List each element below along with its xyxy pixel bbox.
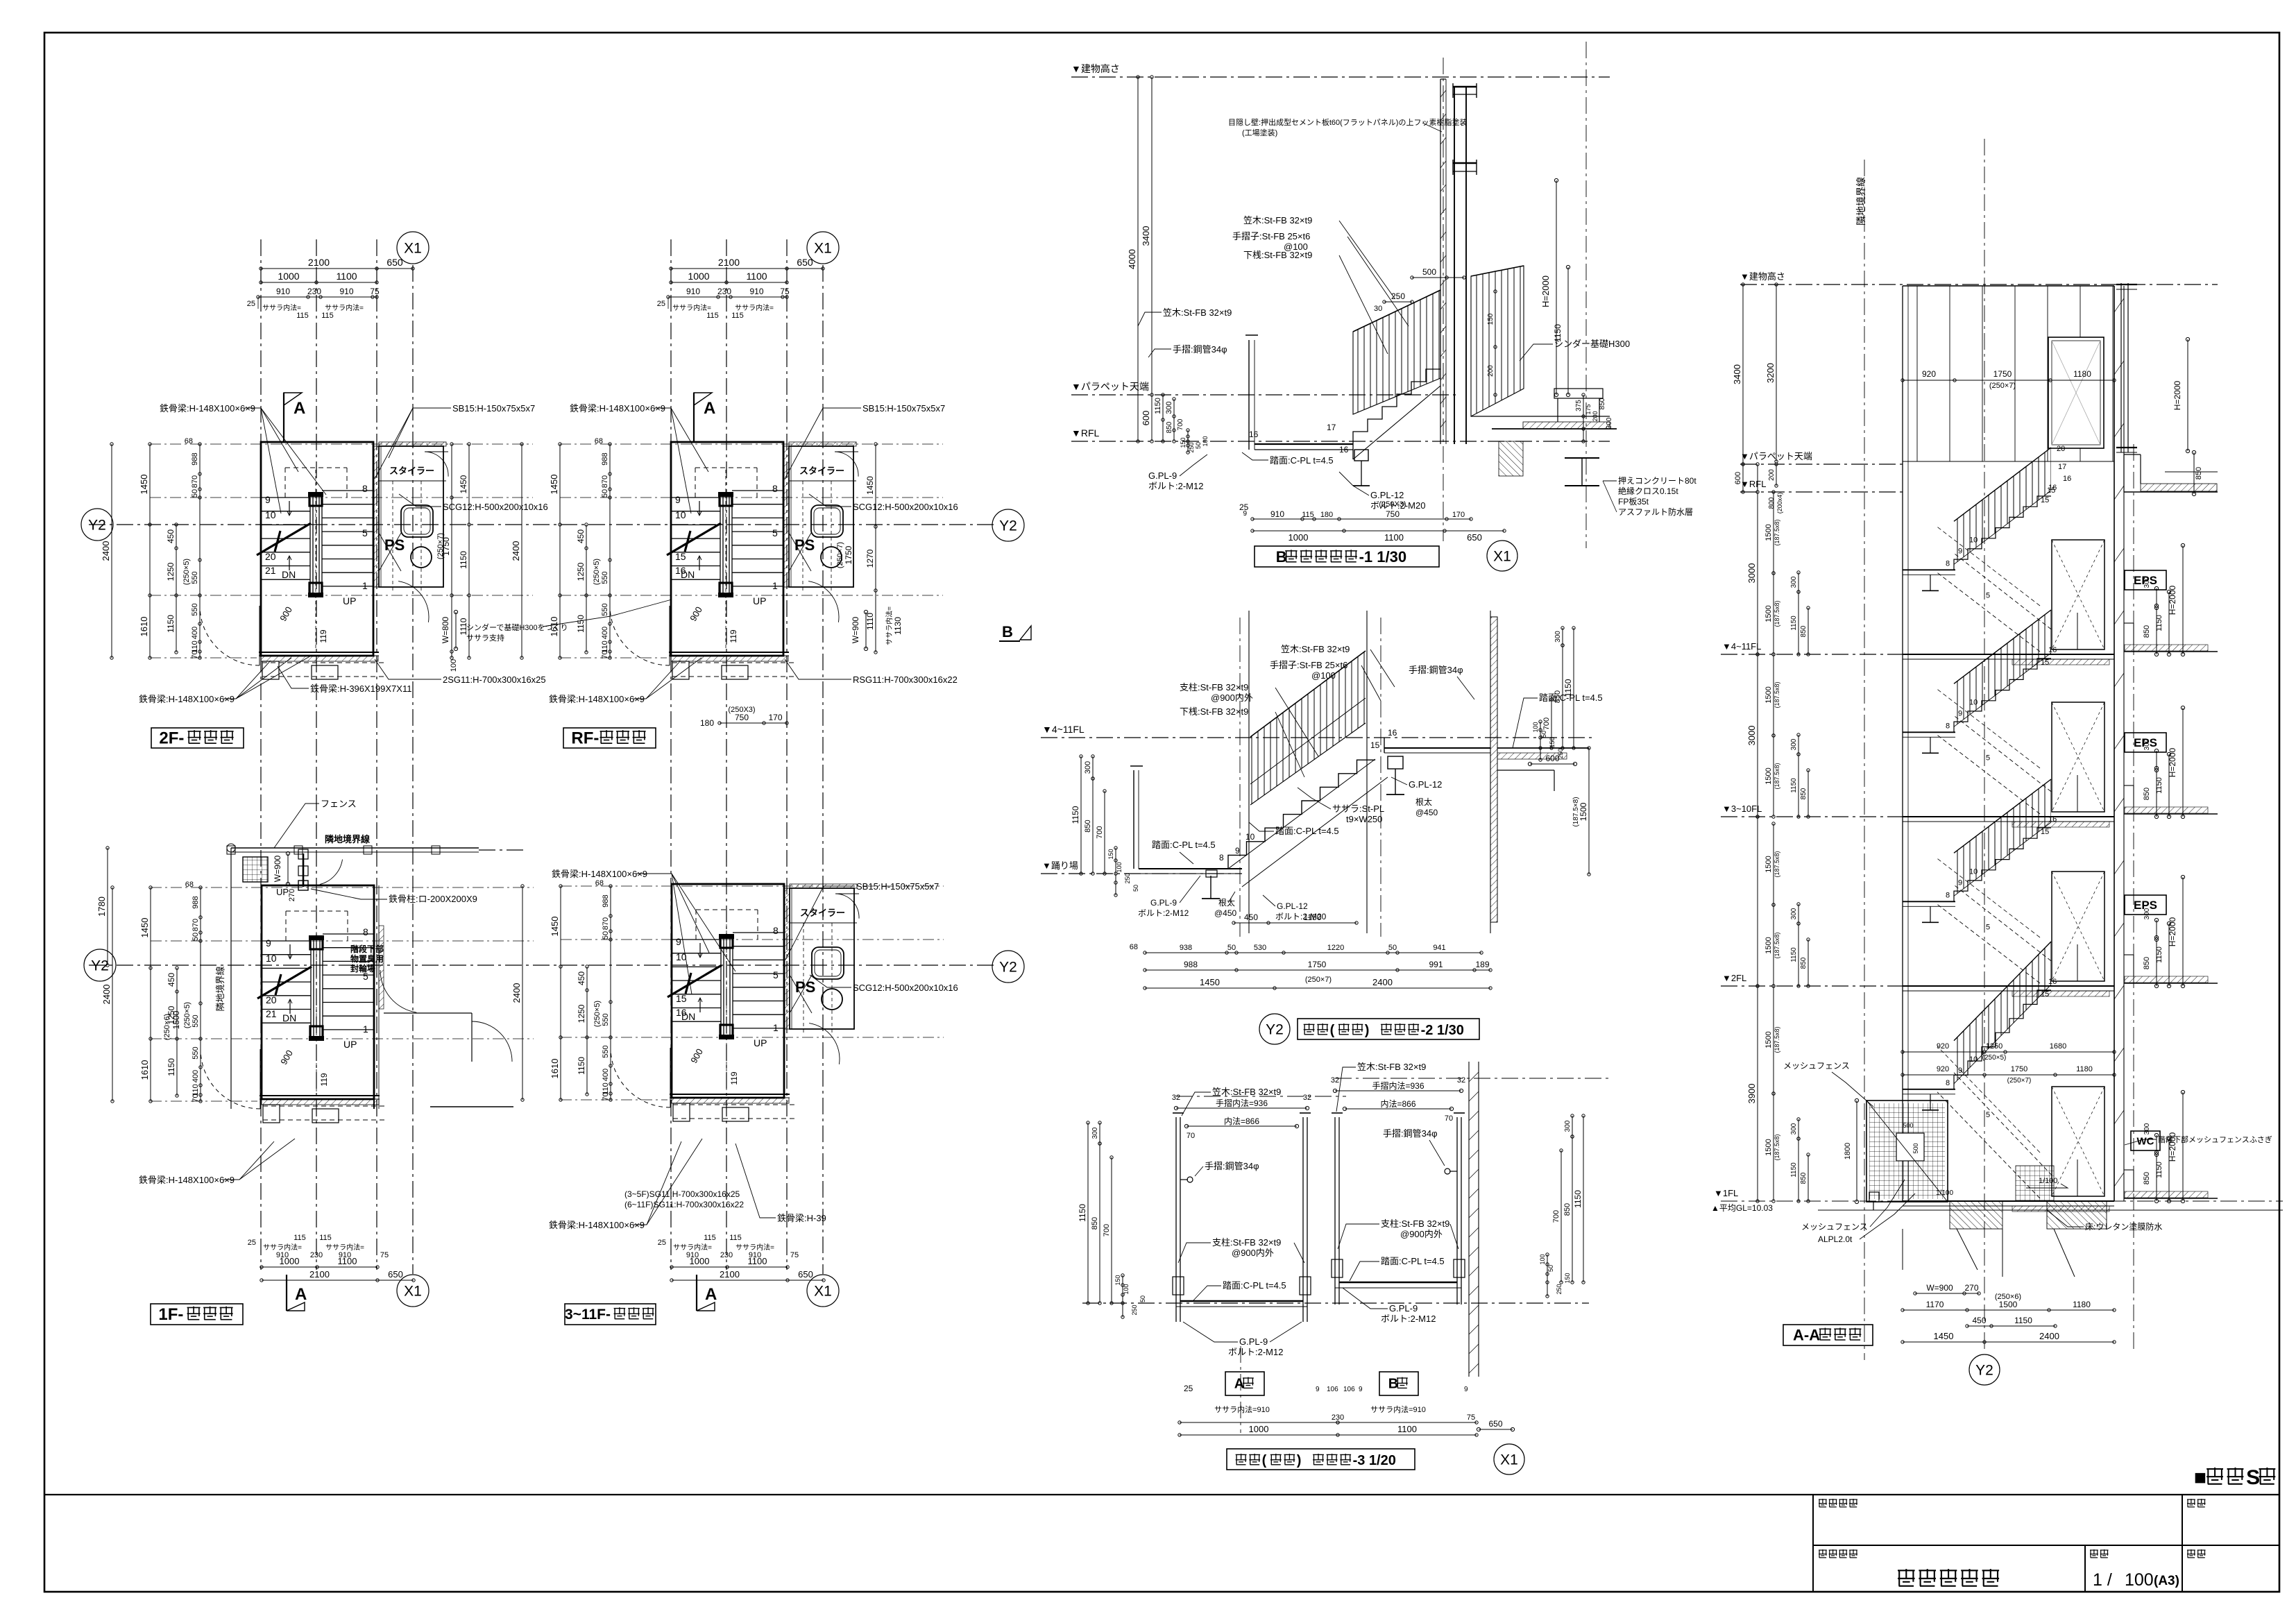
svg-text:300: 300 [1084, 761, 1092, 774]
svg-text:9: 9 [1359, 1386, 1363, 1393]
svg-text:25: 25 [657, 300, 665, 308]
svg-text:115: 115 [321, 312, 334, 320]
svg-text:階段下部メッシュフェンスふさぎ: 階段下部メッシュフェンスふさぎ [2158, 1135, 2272, 1144]
grid line Y2 upper [89, 524, 994, 525]
svg-text:ササラ内法=910: ササラ内法=910 [1370, 1404, 1426, 1414]
svg-text:1450: 1450 [550, 917, 560, 937]
svg-text:(250×5): (250×5) [593, 559, 601, 585]
svg-text:119: 119 [318, 629, 328, 643]
svg-text:(187.5x8): (187.5x8) [1774, 932, 1780, 958]
AA parapet stripes [1903, 286, 2114, 461]
svg-text:@450: @450 [1214, 908, 1237, 918]
plan 3-11F left dimensions [511, 879, 612, 1101]
svg-text:▼建物高さ: ▼建物高さ [1071, 63, 1120, 74]
svg-text:1500: 1500 [1764, 524, 1773, 541]
svg-text:1150: 1150 [166, 615, 176, 633]
svg-text:106: 106 [1343, 1386, 1355, 1393]
svg-text:1000: 1000 [280, 1256, 300, 1266]
svg-text:50: 50 [1227, 944, 1236, 952]
AA storey right dims level 3 [2143, 1090, 2185, 1203]
detail B1 wall leader [1228, 117, 1467, 137]
svg-text:1150: 1150 [1790, 778, 1798, 793]
svg-text:2SG11:H-700x300x16x25: 2SG11:H-700x300x16x25 [443, 674, 546, 685]
plan RF leader SB15 [785, 403, 945, 479]
svg-text:UP: UP [343, 595, 356, 606]
svg-text:106: 106 [1327, 1386, 1338, 1393]
svg-text:250: 250 [1131, 1305, 1138, 1315]
svg-text:75: 75 [370, 287, 380, 296]
svg-text:270: 270 [288, 889, 296, 901]
svg-text:Y2: Y2 [88, 517, 106, 533]
detail B1 wall [1440, 79, 1477, 444]
AA bottom dims [1901, 1283, 2116, 1343]
svg-text:1500: 1500 [171, 1010, 181, 1029]
svg-text:-1 1/30: -1 1/30 [1359, 548, 1407, 566]
svg-text:踏面:C-PL t=4.5: 踏面:C-PL t=4.5 [1381, 1256, 1445, 1266]
plan column grid lines right [671, 239, 823, 1274]
svg-text:8: 8 [1946, 559, 1950, 568]
svg-text:1450: 1450 [549, 475, 559, 495]
svg-text:1680: 1680 [2050, 1042, 2066, 1051]
detail2 right dims [1528, 627, 1590, 876]
svg-text:25: 25 [658, 1239, 666, 1247]
plan 3-11F label [565, 1304, 656, 1325]
svg-text:1610: 1610 [139, 617, 149, 637]
svg-text:850: 850 [2143, 625, 2151, 638]
plan 1F entry door [273, 849, 477, 904]
svg-text:1/100: 1/100 [2039, 1177, 2058, 1185]
svg-text:(: ( [1330, 1023, 1335, 1038]
svg-text:1150: 1150 [1071, 806, 1080, 824]
svg-text:850: 850 [1084, 819, 1092, 832]
svg-text:手摺内法=936: 手摺内法=936 [1216, 1098, 1268, 1108]
svg-text:3~11F-: 3~11F- [565, 1307, 611, 1323]
svg-text:鉄骨梁:H-148X100×6×9: 鉄骨梁:H-148X100×6×9 [139, 1175, 235, 1185]
svg-text:300: 300 [1165, 401, 1173, 414]
svg-text:1780: 1780 [96, 897, 107, 917]
svg-text:DN: DN [681, 569, 695, 580]
svg-text:20: 20 [266, 994, 277, 1005]
svg-text:ササラ内法=: ササラ内法= [262, 303, 301, 312]
plan RF leader cinder [466, 600, 672, 643]
svg-text:シンダー基礎H300: シンダー基礎H300 [1554, 339, 1630, 349]
svg-text:70: 70 [191, 650, 199, 658]
svg-text:21: 21 [265, 565, 276, 576]
svg-text:250: 250 [1391, 291, 1405, 301]
svg-text:G.PL-9: G.PL-9 [1150, 898, 1177, 908]
svg-text:1610: 1610 [139, 1060, 150, 1080]
plan 2F leader SCG12 [399, 494, 548, 512]
svg-text:450: 450 [1972, 1316, 1986, 1325]
svg-text:踏面:C-PL t=4.5: 踏面:C-PL t=4.5 [1539, 692, 1603, 703]
svg-text:スタイラー: スタイラー [799, 466, 844, 476]
plan 2F leader SB15 [375, 403, 535, 479]
svg-text:180: 180 [700, 718, 714, 728]
svg-text:2400: 2400 [1372, 977, 1393, 987]
svg-text:119: 119 [729, 1071, 739, 1085]
AA 2FL dims [1901, 1042, 2116, 1085]
svg-text:1250: 1250 [166, 562, 176, 581]
svg-text:笠木:St-FB 32×t9: 笠木:St-FB 32×t9 [1163, 307, 1232, 318]
detail B1 X1 bubble [1487, 541, 1517, 571]
svg-text:150: 150 [1549, 737, 1556, 747]
svg-text:75: 75 [380, 1251, 389, 1259]
detail B1 grid verticals [1443, 42, 1586, 548]
svg-text:手摺:鋼管34φ: 手摺:鋼管34φ [1173, 344, 1227, 355]
AA RFL right parapet [2047, 445, 2218, 495]
svg-text:5: 5 [1986, 1111, 1990, 1119]
svg-text:W=900: W=900 [1926, 1283, 1953, 1293]
AA storey door level 0 [2052, 540, 2104, 649]
svg-text:68: 68 [1130, 943, 1138, 951]
svg-text:170: 170 [768, 713, 782, 722]
svg-text:1150: 1150 [1790, 947, 1798, 962]
plan 3-11F stair [611, 884, 795, 1121]
svg-text:踏面:C-PL t=4.5: 踏面:C-PL t=4.5 [1152, 840, 1216, 850]
svg-text:850: 850 [2143, 957, 2151, 969]
svg-text:9: 9 [265, 494, 271, 505]
svg-text:1F-: 1F- [158, 1305, 183, 1324]
AA bottom leaders [1801, 1135, 2272, 1244]
svg-text:1: 1 [363, 1023, 368, 1035]
detail3 B-side frame [1332, 1113, 1465, 1305]
svg-text:(250×5): (250×5) [182, 559, 191, 585]
detail3 B-side top dims [1331, 1076, 1465, 1123]
svg-text:16: 16 [2063, 475, 2071, 483]
svg-text:ササラ内法=910: ササラ内法=910 [1214, 1404, 1270, 1414]
svg-text:5: 5 [772, 527, 778, 538]
svg-text:100: 100 [450, 659, 458, 672]
svg-text:10: 10 [675, 509, 686, 520]
svg-text:9: 9 [1316, 1386, 1320, 1393]
svg-text:▼4~11FL: ▼4~11FL [1722, 641, 1761, 652]
svg-text:230: 230 [717, 287, 731, 296]
svg-text:75: 75 [780, 287, 790, 296]
detail3 A-side frame [1173, 1113, 1311, 1322]
svg-text:9: 9 [266, 937, 271, 949]
plan 3-11F annex [785, 884, 859, 1064]
svg-text:X1: X1 [404, 1283, 422, 1299]
svg-text:根太: 根太 [1218, 897, 1235, 908]
svg-text:3000: 3000 [1746, 726, 1757, 746]
svg-text:1180: 1180 [2073, 1300, 2091, 1309]
svg-text:▼RFL: ▼RFL [1740, 479, 1766, 489]
svg-text:50: 50 [1132, 885, 1139, 892]
svg-text:B: B [1388, 1377, 1398, 1392]
svg-text:1150: 1150 [1304, 912, 1322, 922]
svg-text:530: 530 [1254, 944, 1266, 952]
AA storey left sub dims level 0 [1764, 491, 1810, 656]
svg-text:450: 450 [576, 529, 586, 543]
svg-text:850: 850 [1166, 421, 1173, 433]
svg-text:700: 700 [1542, 717, 1551, 730]
svg-text:180: 180 [1320, 511, 1333, 519]
svg-text:8: 8 [1946, 1079, 1950, 1087]
svg-text:X1: X1 [404, 240, 422, 256]
svg-text:920: 920 [1937, 1065, 1949, 1073]
svg-text:300: 300 [1790, 1123, 1798, 1135]
svg-text:450: 450 [1244, 912, 1258, 922]
svg-text:鉄骨梁:H-396X199X7X11: 鉄骨梁:H-396X199X7X11 [310, 683, 411, 694]
svg-text:5: 5 [1986, 923, 1990, 931]
AA mesh fence enclosure [1783, 1061, 1948, 1204]
svg-text:DN: DN [282, 569, 296, 580]
svg-text:115: 115 [1302, 511, 1314, 519]
svg-text:119: 119 [729, 629, 738, 643]
svg-text:68: 68 [595, 437, 603, 445]
svg-text:230: 230 [307, 287, 321, 296]
svg-text:H=2000: H=2000 [2172, 380, 2182, 410]
svg-text:650: 650 [1467, 532, 1482, 543]
AA storey right dims level 1 [2143, 706, 2185, 818]
svg-text:笠木:St-FB 32×t9: 笠木:St-FB 32×t9 [1357, 1062, 1426, 1072]
svg-text:▼RFL: ▼RFL [1071, 427, 1100, 439]
svg-text:9: 9 [1958, 709, 1962, 717]
svg-text:400: 400 [602, 1069, 610, 1081]
svg-text:(250×5): (250×5) [183, 1002, 192, 1028]
svg-text:70: 70 [1187, 1132, 1195, 1140]
svg-text:1180: 1180 [2073, 369, 2091, 379]
svg-text:1500: 1500 [1764, 1031, 1773, 1048]
svg-text:988: 988 [602, 894, 610, 907]
svg-text:2100: 2100 [718, 257, 740, 268]
svg-text:600: 600 [1734, 472, 1742, 484]
svg-text:450: 450 [166, 529, 176, 543]
svg-text:2F-: 2F- [159, 729, 184, 747]
detail B1 railing [1353, 266, 1524, 416]
svg-text:スタイラー: スタイラー [389, 466, 434, 476]
plan horizontal reference lines [150, 444, 944, 1101]
svg-text:■: ■ [2194, 1466, 2206, 1489]
svg-text:870: 870 [601, 475, 609, 488]
svg-text:300: 300 [1790, 576, 1798, 588]
detail B1 G.PL leaders [1148, 430, 1425, 511]
svg-text:50: 50 [601, 489, 609, 498]
svg-text:100: 100 [1116, 862, 1123, 872]
svg-text:1450: 1450 [459, 475, 468, 493]
svg-text:16: 16 [2048, 815, 2057, 824]
svg-text:アスファルト防水層: アスファルト防水層 [1618, 507, 1693, 517]
plan 2F leader beam bottom-left [139, 655, 312, 704]
svg-text:100: 100 [1532, 722, 1539, 732]
svg-text:150: 150 [1564, 1273, 1571, 1283]
svg-text:1180: 1180 [2076, 1065, 2093, 1073]
svg-text:5: 5 [773, 969, 779, 980]
plan RF section flag A [694, 393, 715, 441]
svg-text:5: 5 [362, 527, 368, 538]
AA storey left sub dims level 2 [1764, 822, 1810, 987]
svg-text:目隠し壁:押出成型セメント板t60(フラットパネル)の上フッ: 目隠し壁:押出成型セメント板t60(フラットパネル)の上フッ素樹脂塗装 [1228, 117, 1467, 127]
AA left dim chains [1732, 283, 1783, 1203]
svg-text:): ) [1365, 1023, 1370, 1038]
title block [44, 1495, 2279, 1592]
svg-text:15: 15 [676, 993, 687, 1004]
detail2 railing leaders [1180, 644, 1474, 777]
svg-text:B: B [1002, 623, 1013, 640]
detail B1 railing leaders [1138, 215, 1409, 357]
svg-text:17: 17 [1327, 423, 1336, 432]
svg-text:3400: 3400 [1732, 364, 1742, 384]
svg-text:1610: 1610 [550, 1059, 560, 1079]
svg-text:50: 50 [191, 489, 199, 498]
svg-text:70: 70 [602, 1092, 610, 1101]
svg-text:鉄骨梁:H-148X100×6×9: 鉄骨梁:H-148X100×6×9 [139, 694, 235, 704]
svg-text:550: 550 [191, 603, 199, 615]
svg-text:根太: 根太 [1415, 797, 1432, 807]
svg-text:550: 550 [602, 1013, 610, 1026]
svg-text:75: 75 [1467, 1413, 1475, 1422]
svg-text:PS: PS [795, 978, 815, 996]
svg-text:9: 9 [1243, 510, 1247, 518]
svg-text:Y2: Y2 [999, 959, 1017, 975]
detail B1 left dim chains [1127, 76, 1209, 454]
axis bubble Y2 lower-left [84, 949, 116, 981]
svg-text:10: 10 [1245, 832, 1255, 842]
svg-text:1100: 1100 [1384, 532, 1404, 543]
svg-text:1150: 1150 [1790, 615, 1798, 631]
svg-text:988: 988 [1184, 960, 1198, 969]
svg-text:988: 988 [601, 452, 609, 465]
detail2 grid verticals [1240, 611, 1490, 937]
svg-text:150: 150 [1107, 849, 1114, 859]
svg-text:1450: 1450 [1934, 1331, 1954, 1341]
svg-text:内法=866: 内法=866 [1380, 1099, 1415, 1109]
plan 2F annex PS [374, 442, 448, 622]
svg-text:300: 300 [1091, 1127, 1099, 1139]
svg-text:▼建物高さ: ▼建物高さ [1740, 271, 1785, 282]
svg-text:A: A [294, 399, 305, 418]
svg-text:8: 8 [1946, 722, 1950, 730]
svg-text:SB15:H-150x75x5x7: SB15:H-150x75x5x7 [862, 403, 945, 414]
svg-text:600: 600 [1545, 754, 1559, 763]
svg-text:550: 550 [602, 1045, 610, 1057]
svg-text:300: 300 [1554, 631, 1562, 643]
svg-text:1000: 1000 [278, 271, 299, 282]
svg-text:(187.5x8): (187.5x8) [1774, 1026, 1780, 1053]
svg-text:650: 650 [797, 257, 813, 268]
detail2 right slab [1497, 748, 1589, 791]
svg-text:115: 115 [731, 312, 744, 320]
svg-text:150: 150 [1114, 1275, 1121, 1285]
svg-text:踏面:C-PL t=4.5: 踏面:C-PL t=4.5 [1270, 455, 1334, 466]
plan 3-11F bottom dimension rows [658, 1234, 825, 1282]
svg-text:1500: 1500 [1579, 802, 1588, 821]
svg-text:991: 991 [1429, 960, 1443, 969]
svg-text:FP板35t: FP板35t [1618, 497, 1649, 507]
svg-text:750: 750 [735, 713, 749, 722]
svg-text:500: 500 [1903, 1122, 1913, 1129]
svg-text:150: 150 [1487, 313, 1495, 325]
svg-text:スタイラー: スタイラー [800, 908, 845, 918]
svg-text:4000: 4000 [1127, 249, 1137, 269]
svg-text:68: 68 [595, 879, 604, 887]
plan 1F bottom leader [139, 1139, 295, 1185]
grid mark B [999, 623, 1031, 641]
svg-text:15: 15 [2041, 496, 2049, 504]
plan 2F stair [200, 442, 384, 679]
svg-text:2100: 2100 [720, 1269, 740, 1280]
svg-text:988: 988 [192, 896, 200, 908]
detail2 left landing [1139, 853, 1242, 874]
svg-text:1150: 1150 [1573, 1190, 1583, 1208]
svg-text:500: 500 [1422, 267, 1436, 277]
svg-text:1500: 1500 [1764, 937, 1773, 953]
svg-text:1000: 1000 [1289, 532, 1309, 543]
svg-text:▼3~10FL: ▼3~10FL [1722, 804, 1762, 814]
svg-text:9: 9 [676, 936, 681, 947]
svg-text:1110: 1110 [865, 613, 875, 630]
svg-text:A: A [705, 1285, 717, 1304]
axis bubble X1 top-right [807, 232, 839, 264]
svg-text:1150: 1150 [1553, 324, 1563, 342]
svg-text:@900内外: @900内外 [1211, 692, 1253, 703]
svg-text:1100: 1100 [338, 1256, 357, 1266]
svg-text:2100: 2100 [308, 257, 330, 268]
svg-text:ササラ:St-PL: ササラ:St-PL [1332, 804, 1384, 814]
svg-text:175: 175 [1585, 404, 1592, 414]
svg-text:ボルト:2-M12: ボルト:2-M12 [1381, 1314, 1436, 1324]
svg-text:1: 1 [362, 580, 368, 591]
svg-text:笠木:St-FB 32×t9: 笠木:St-FB 32×t9 [1243, 215, 1312, 226]
svg-text:PS: PS [794, 536, 815, 554]
svg-text:(187.5x8): (187.5x8) [1774, 1134, 1780, 1160]
svg-text:手摺:鋼管34φ: 手摺:鋼管34φ [1205, 1161, 1259, 1171]
axis bubble Y2 lower-right [992, 951, 1024, 983]
svg-text:230: 230 [720, 1251, 733, 1259]
AA storey above level 3 [1903, 942, 2218, 1212]
svg-text:隣地境界線: 隣地境界線 [215, 966, 226, 1011]
svg-text:550: 550 [191, 571, 199, 584]
svg-text:100: 100 [1123, 1284, 1130, 1294]
svg-text:ALPL2.0t: ALPL2.0t [1818, 1234, 1853, 1244]
svg-text:650: 650 [386, 257, 403, 268]
plan 2F left dimensions [101, 437, 201, 659]
svg-text:1100: 1100 [748, 1256, 767, 1266]
plan RF label [563, 728, 656, 748]
svg-text:1/100: 1/100 [1936, 1189, 1953, 1197]
detail B1 stair steps [1327, 369, 1440, 486]
svg-text:50: 50 [192, 933, 200, 941]
AA roof door [2048, 337, 2104, 448]
svg-text:(200x4): (200x4) [1776, 493, 1783, 514]
svg-text:1450: 1450 [865, 476, 875, 495]
svg-text:1130: 1130 [893, 617, 903, 635]
svg-text:1500: 1500 [1764, 686, 1773, 703]
AA storey above level 1 [1903, 610, 2218, 827]
svg-text:15: 15 [2041, 658, 2049, 667]
svg-text:(250×5): (250×5) [1982, 1054, 2007, 1062]
svg-text:850: 850 [1563, 1203, 1572, 1216]
detail3 right dims [1539, 1114, 1585, 1298]
svg-text:16: 16 [2048, 484, 2057, 492]
svg-text:t9×W250: t9×W250 [1346, 814, 1382, 824]
svg-text:250: 250 [1124, 873, 1131, 883]
detail2 wall right [1490, 617, 1497, 922]
svg-text:A: A [1234, 1377, 1244, 1392]
svg-text:踏面:C-PL t=4.5: 踏面:C-PL t=4.5 [1223, 1280, 1286, 1291]
svg-text:375: 375 [1575, 400, 1583, 411]
plan RF annex [784, 442, 858, 622]
svg-text:70: 70 [192, 1094, 200, 1102]
plan RF stair [610, 442, 794, 679]
svg-text:支柱:St-FB 32×t9: 支柱:St-FB 32×t9 [1212, 1237, 1281, 1248]
svg-text:(250×7): (250×7) [2007, 1077, 2032, 1085]
svg-text:(: ( [1262, 1453, 1267, 1468]
svg-text:189: 189 [1475, 960, 1489, 969]
svg-text:2400: 2400 [511, 983, 522, 1003]
detail B1 bottom dims [1239, 500, 1506, 543]
plan column grid lines left [261, 239, 413, 1274]
